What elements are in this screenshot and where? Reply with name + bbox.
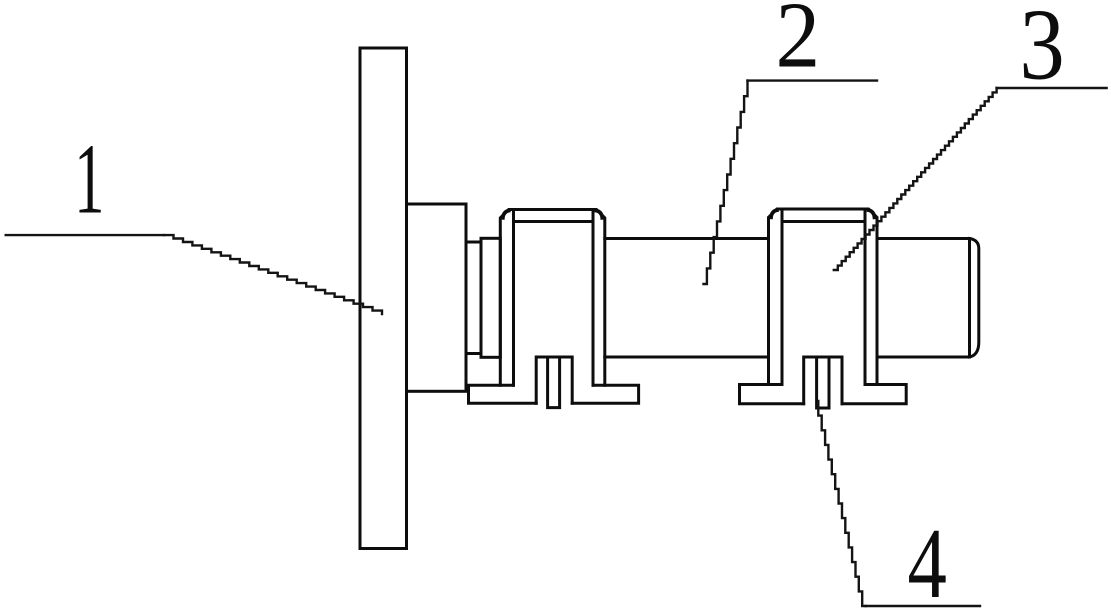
svg-text:1: 1 [74,124,104,236]
svg-text:4: 4 [908,507,947,614]
svg-text:3: 3 [1019,0,1064,100]
svg-text:2: 2 [775,0,820,87]
